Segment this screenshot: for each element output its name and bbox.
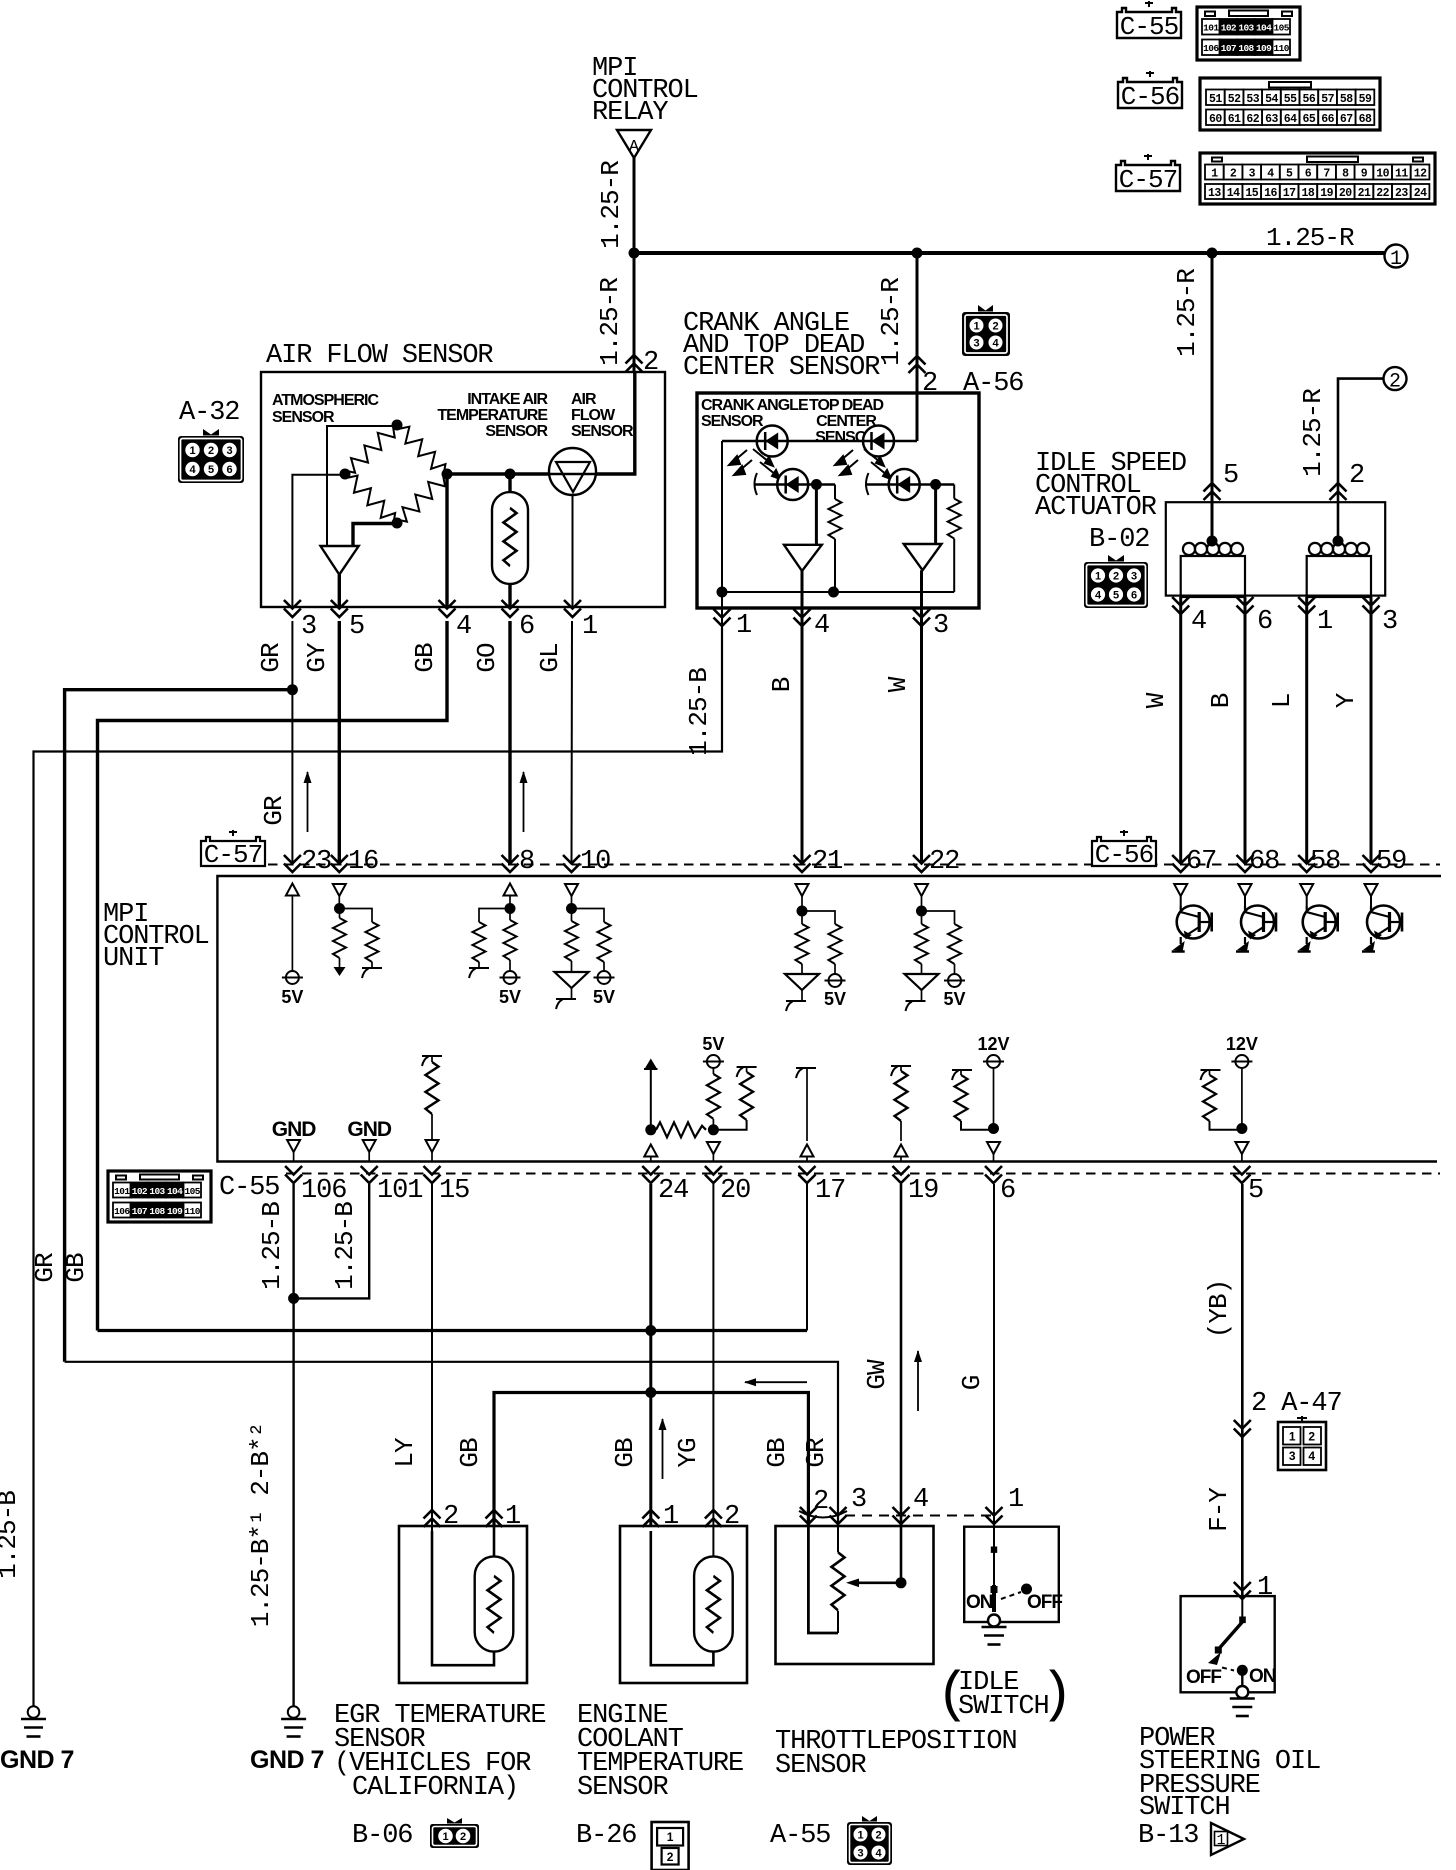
svg-text:5: 5 bbox=[208, 464, 214, 476]
svg-text:2: 2 bbox=[1349, 461, 1364, 491]
light arrows tdc bbox=[835, 449, 891, 479]
svg-text:4: 4 bbox=[1308, 1449, 1315, 1463]
connector C-57 mini label bbox=[201, 830, 265, 870]
idle speed control actuator box bbox=[1166, 502, 1385, 595]
svg-text:64: 64 bbox=[1284, 113, 1297, 126]
pin 21 chevron bbox=[794, 855, 811, 872]
pin 1 exit chevron bbox=[564, 600, 581, 617]
light arrows crank bbox=[729, 449, 780, 479]
air flow sensor box bbox=[261, 372, 665, 607]
svg-text:19: 19 bbox=[908, 1176, 938, 1206]
svg-text:2: 2 bbox=[460, 1831, 466, 1843]
svg-text:SWITCH: SWITCH bbox=[958, 1692, 1049, 1722]
svg-text:C-56: C-56 bbox=[1121, 82, 1179, 112]
svg-text:5V: 5V bbox=[702, 1034, 724, 1054]
connector A-47 icon bbox=[1278, 1416, 1326, 1470]
svg-text:ON: ON bbox=[1249, 1666, 1276, 1687]
svg-text:C-56: C-56 bbox=[1095, 840, 1153, 870]
coolant sensor capsule bbox=[694, 1556, 733, 1651]
wire pin 1 exit bbox=[721, 592, 723, 628]
node right bbox=[442, 469, 453, 480]
svg-text:5V: 5V bbox=[281, 987, 303, 1007]
wire actuator pin 3 to C-56 pin 59 bbox=[1370, 597, 1373, 864]
svg-text:3: 3 bbox=[1382, 607, 1397, 637]
svg-text:9: 9 bbox=[1361, 168, 1368, 181]
wire node to amp crank bbox=[815, 485, 818, 545]
svg-text:FLOW: FLOW bbox=[571, 407, 616, 424]
amplifier atmospheric sensor bbox=[321, 546, 359, 575]
svg-text:101: 101 bbox=[1203, 23, 1219, 34]
wire amp output pin 3 to MPI pin 22 bbox=[920, 570, 923, 864]
svg-text:1.25-R: 1.25-R bbox=[1266, 223, 1354, 253]
GR net horizontal (to throttle pin 3) bbox=[65, 1362, 838, 1526]
svg-text:CENTER: CENTER bbox=[816, 413, 877, 430]
throttle position sensor box bbox=[776, 1526, 934, 1664]
pin 4 chevron bbox=[1172, 597, 1189, 614]
pin 17 chevron bbox=[799, 1166, 816, 1183]
svg-text:1: 1 bbox=[189, 445, 195, 457]
svg-text:(YB): (YB) bbox=[1204, 1280, 1234, 1338]
svg-text:2: 2 bbox=[1113, 571, 1119, 583]
svg-text:53: 53 bbox=[1246, 93, 1259, 106]
svg-text:17: 17 bbox=[1283, 187, 1296, 200]
connector C-56 pin grid (top right) bbox=[1200, 78, 1380, 130]
svg-text:W: W bbox=[883, 676, 913, 692]
connector C-55 pin grid (at C-55 row) bbox=[108, 1171, 211, 1222]
pin 3 exit chevron bbox=[284, 600, 301, 617]
svg-text:2: 2 bbox=[1230, 168, 1237, 181]
svg-text:2: 2 bbox=[1308, 1430, 1315, 1444]
throttle pin 2 chevron bbox=[800, 1507, 817, 1524]
svg-text:63: 63 bbox=[1265, 113, 1278, 126]
svg-text:110: 110 bbox=[185, 1206, 201, 1217]
svg-text:1: 1 bbox=[1008, 1485, 1023, 1515]
power steering oil pressure switch box bbox=[1181, 1596, 1275, 1692]
svg-text:W: W bbox=[1141, 692, 1171, 708]
svg-text:GND: GND bbox=[272, 1118, 317, 1141]
bridge resistor top-right bbox=[392, 420, 453, 480]
svg-text:GND 7: GND 7 bbox=[250, 1746, 324, 1774]
svg-text:6: 6 bbox=[1257, 607, 1272, 637]
pin 4 chevron bbox=[794, 609, 811, 626]
bridge resistor top-left bbox=[340, 420, 402, 480]
wire PT to node tdc bbox=[920, 483, 955, 485]
svg-text:A-55: A-55 bbox=[770, 1821, 830, 1851]
pin 24 / pin 20 internal network bbox=[645, 1059, 657, 1069]
relay connector triangle A bbox=[617, 130, 651, 158]
pin 16 internal resistors bbox=[333, 884, 346, 896]
connector C-55 label box (top right) bbox=[1117, 1, 1181, 42]
svg-text:LY: LY bbox=[390, 1437, 420, 1468]
connector A-55 icon bbox=[847, 1816, 892, 1865]
svg-text:105: 105 bbox=[1274, 23, 1290, 34]
idle switch OFF contact bbox=[1021, 1584, 1032, 1595]
svg-text:102: 102 bbox=[1221, 23, 1237, 34]
svg-text:60: 60 bbox=[1209, 113, 1222, 126]
throttle potentiometer bbox=[837, 1526, 839, 1552]
svg-text:GB: GB bbox=[610, 1438, 640, 1468]
transistor pin 68 bbox=[1239, 884, 1252, 896]
pin 3 chevron bbox=[913, 609, 930, 626]
node bottom bbox=[392, 518, 403, 529]
svg-text:55: 55 bbox=[1284, 93, 1297, 106]
svg-text:109: 109 bbox=[1256, 43, 1272, 54]
svg-text:GO: GO bbox=[472, 643, 502, 673]
pin 21 internal bbox=[796, 884, 809, 896]
resistor inside coolant capsule bbox=[707, 1576, 720, 1633]
LED crank angle bbox=[757, 426, 788, 457]
svg-text:ATMOSPHERIC: ATMOSPHERIC bbox=[272, 392, 379, 409]
svg-text:SENSOR: SENSOR bbox=[571, 423, 634, 440]
amplifier crank bbox=[784, 545, 822, 571]
svg-text:6: 6 bbox=[1305, 168, 1312, 181]
svg-text:17: 17 bbox=[815, 1176, 845, 1206]
ground GND7 left bbox=[21, 1706, 46, 1736]
pin 5 exit chevron bbox=[331, 600, 348, 617]
connector A-32 icon bbox=[178, 429, 244, 483]
svg-text:10: 10 bbox=[1376, 168, 1389, 181]
throttle pin 4 chevron bbox=[893, 1507, 910, 1524]
wire GB down and left to rail bbox=[98, 621, 448, 1331]
svg-text:C-55: C-55 bbox=[1120, 12, 1178, 42]
svg-text:105: 105 bbox=[185, 1186, 201, 1197]
svg-text:61: 61 bbox=[1228, 113, 1241, 126]
svg-text:24: 24 bbox=[658, 1176, 688, 1206]
ground GND7 right bbox=[281, 1706, 306, 1736]
svg-text:GR: GR bbox=[256, 643, 286, 673]
node pill tap bbox=[505, 469, 516, 480]
pin 59 chevron bbox=[1363, 855, 1380, 872]
svg-text:102: 102 bbox=[132, 1186, 148, 1197]
pin 2 chevron actuator bbox=[1330, 483, 1347, 500]
intake air temp sensor capsule bbox=[492, 492, 528, 584]
pin 22 chevron bbox=[913, 855, 930, 872]
svg-text:23: 23 bbox=[301, 847, 331, 877]
svg-text:CALIFORNIA): CALIFORNIA) bbox=[352, 1773, 518, 1803]
svg-text:2: 2 bbox=[992, 321, 998, 333]
svg-text:GW: GW bbox=[862, 1359, 892, 1390]
svg-text:7: 7 bbox=[1323, 168, 1330, 181]
svg-text:GB: GB bbox=[762, 1438, 792, 1468]
coolant inner loop wire bbox=[651, 1531, 714, 1665]
svg-text:GR: GR bbox=[801, 1438, 831, 1468]
direction arrow up (GW) bbox=[914, 1350, 922, 1411]
svg-text:8: 8 bbox=[519, 847, 534, 877]
svg-text:5: 5 bbox=[1286, 168, 1293, 181]
pin 17 internal bbox=[796, 1068, 816, 1078]
svg-text:4: 4 bbox=[1095, 590, 1102, 602]
connector B-13 icon bbox=[1211, 1823, 1244, 1855]
svg-text:2: 2 bbox=[875, 1830, 881, 1842]
svg-text:A: A bbox=[629, 138, 640, 157]
air flow sensor circle bbox=[549, 448, 596, 495]
node GR branch bbox=[287, 684, 298, 695]
wire pin 24 to coolant sensor pin 1 bbox=[649, 1184, 652, 1526]
bridge resistor bottom-left bbox=[340, 469, 402, 529]
svg-text:103: 103 bbox=[1238, 23, 1254, 34]
pin 10 internal bbox=[565, 884, 578, 896]
svg-text:CENTER SENSOR: CENTER SENSOR bbox=[683, 353, 880, 383]
svg-text:23: 23 bbox=[1395, 187, 1408, 200]
node GB branch/pin24 junction bbox=[645, 1387, 656, 1398]
resistor tdc bbox=[953, 485, 955, 499]
svg-text:3: 3 bbox=[301, 612, 316, 642]
EGR temperature sensor box bbox=[399, 1526, 527, 1683]
pin 1 chevron bbox=[1298, 597, 1315, 614]
wire 1.25-B to left edge and GND7 bbox=[34, 628, 723, 1706]
svg-text:106: 106 bbox=[301, 1176, 346, 1206]
svg-text:CRANK ANGLE: CRANK ANGLE bbox=[701, 397, 809, 414]
svg-text:Y: Y bbox=[1331, 692, 1361, 708]
bottom rail bbox=[722, 591, 954, 593]
svg-text:6: 6 bbox=[1131, 590, 1137, 602]
svg-text:59: 59 bbox=[1376, 847, 1406, 877]
connector crossing A-56 chevron bbox=[909, 356, 926, 373]
svg-text:1: 1 bbox=[1095, 571, 1101, 583]
svg-text:104: 104 bbox=[167, 1186, 183, 1197]
wire flow sensor to pin 2 riser bbox=[596, 372, 635, 474]
throttle wiper wire bbox=[900, 1526, 903, 1583]
pin 16 chevron bbox=[331, 855, 348, 872]
svg-text:101: 101 bbox=[377, 1176, 422, 1206]
svg-text:21: 21 bbox=[1358, 187, 1371, 200]
svg-text:1: 1 bbox=[1257, 1573, 1272, 1603]
left coil bbox=[1183, 543, 1243, 555]
svg-text:5V: 5V bbox=[943, 989, 965, 1009]
svg-text:57: 57 bbox=[1321, 93, 1334, 106]
resistor crank bbox=[834, 485, 836, 500]
svg-text:GR: GR bbox=[259, 796, 289, 826]
pin 19 internal resistor bbox=[891, 1066, 911, 1076]
wire pin 20 to coolant sensor pin 2 bbox=[712, 1184, 714, 1556]
svg-text:5V: 5V bbox=[824, 989, 846, 1009]
svg-text:20: 20 bbox=[720, 1176, 750, 1206]
wire bus to idle speed actuator pin 5 bbox=[1211, 253, 1214, 538]
svg-text:B-26: B-26 bbox=[576, 1821, 636, 1851]
svg-text:54: 54 bbox=[1265, 93, 1278, 106]
svg-text:1.25-R: 1.25-R bbox=[595, 278, 625, 366]
svg-text:B: B bbox=[767, 677, 797, 692]
power steering switch blade bbox=[1241, 1596, 1243, 1620]
svg-text:5: 5 bbox=[349, 612, 364, 642]
pin 23 chevron bbox=[284, 855, 301, 872]
direction arrow left bbox=[744, 1378, 807, 1386]
svg-text:5: 5 bbox=[1248, 1176, 1263, 1206]
connector C-56 mini label bbox=[1092, 830, 1156, 870]
wire GL down to MPI pin 10 bbox=[571, 621, 574, 864]
svg-text:24: 24 bbox=[1414, 187, 1427, 200]
node left bbox=[340, 469, 351, 480]
transistor pin 67 bbox=[1174, 884, 1187, 896]
svg-text:22: 22 bbox=[1376, 187, 1389, 200]
wire flow sensor bottom to pin 1 bbox=[572, 495, 574, 607]
svg-text:ON: ON bbox=[966, 1592, 993, 1613]
connector C-55 pin grid (top right) bbox=[1197, 7, 1300, 60]
connector C-57 dashed line bbox=[268, 864, 1440, 866]
svg-text:GB: GB bbox=[455, 1438, 485, 1468]
svg-text:3: 3 bbox=[1289, 1449, 1296, 1463]
svg-text:68: 68 bbox=[1359, 113, 1372, 126]
svg-text:51: 51 bbox=[1209, 93, 1222, 106]
phototransistor crank bbox=[777, 469, 808, 500]
svg-text:YG: YG bbox=[673, 1438, 703, 1467]
svg-text:TEMPERATURE: TEMPERATURE bbox=[437, 407, 548, 424]
wire actuator pin 6 to C-56 pin 68 bbox=[1244, 597, 1247, 864]
wire LED row bbox=[722, 440, 787, 442]
wire amp output pin 5 bbox=[338, 575, 341, 607]
svg-text:6: 6 bbox=[519, 612, 534, 642]
svg-text:1: 1 bbox=[1216, 1832, 1225, 1849]
main 1.25-R bus wire bbox=[634, 251, 1385, 255]
wire pin 5 to power steering switch bbox=[1241, 1184, 1244, 1596]
svg-text:B-13: B-13 bbox=[1138, 1821, 1198, 1851]
pin 20 chevron bbox=[705, 1166, 722, 1183]
svg-text:RELAY: RELAY bbox=[592, 98, 668, 128]
svg-text:GR: GR bbox=[30, 1253, 60, 1283]
power steering ground bbox=[1230, 1686, 1255, 1716]
throttle pin 2 inner wire bbox=[808, 1526, 838, 1633]
svg-text:GB: GB bbox=[410, 643, 440, 673]
svg-text:SWITCH: SWITCH bbox=[1139, 1793, 1230, 1823]
svg-text:8: 8 bbox=[1342, 168, 1349, 181]
resistor inside capsule bbox=[504, 508, 517, 566]
svg-text:B: B bbox=[1206, 693, 1236, 708]
bridge resistor bottom-right bbox=[392, 469, 453, 529]
pin 58 chevron bbox=[1298, 855, 1315, 872]
node: relay junction bbox=[629, 248, 640, 259]
svg-text:3: 3 bbox=[851, 1485, 866, 1515]
svg-text:12V: 12V bbox=[977, 1034, 1009, 1054]
phototransistor tdc bbox=[889, 469, 920, 500]
svg-text:58: 58 bbox=[1310, 847, 1340, 877]
svg-text:G: G bbox=[957, 1376, 987, 1391]
pin 6 chevron bbox=[985, 1166, 1002, 1183]
pin 8 internal 5V pull-up bbox=[504, 884, 517, 896]
direction arrow up (GB) bbox=[659, 1418, 667, 1479]
svg-text:2: 2 bbox=[208, 445, 214, 457]
svg-text:2: 2 bbox=[813, 1487, 828, 1517]
svg-text:1.25-R: 1.25-R bbox=[1172, 269, 1202, 357]
pin 23 internal 5V bbox=[286, 884, 299, 896]
svg-text:SENSOR: SENSOR bbox=[775, 1751, 867, 1781]
svg-text:110: 110 bbox=[1274, 43, 1290, 54]
svg-text:11: 11 bbox=[1395, 168, 1408, 181]
pin 2 entry chevron air flow sensor bbox=[626, 355, 643, 372]
wire actuator pin 1 to C-56 pin 58 bbox=[1305, 597, 1308, 864]
svg-text:62: 62 bbox=[1246, 113, 1259, 126]
svg-text:67: 67 bbox=[1186, 847, 1216, 877]
pin 101 chevron bbox=[361, 1166, 378, 1183]
transistor pin 58 bbox=[1300, 884, 1313, 896]
resistor inside EGR capsule bbox=[488, 1576, 501, 1633]
connector crossing A-47 chevron bbox=[1234, 1420, 1251, 1437]
svg-text:ACTUATOR: ACTUATOR bbox=[1035, 493, 1157, 523]
pin 68 chevron bbox=[1237, 855, 1254, 872]
svg-text:52: 52 bbox=[1228, 93, 1241, 106]
wire left node to pin 3 bbox=[292, 475, 345, 607]
coolant pin 2 chevron bbox=[705, 1510, 722, 1527]
wire top node to amplifier bbox=[327, 426, 397, 546]
svg-text:4: 4 bbox=[189, 464, 196, 476]
svg-text:1.25-B: 1.25-B bbox=[257, 1202, 287, 1290]
svg-text:107: 107 bbox=[1221, 43, 1237, 54]
off-page connector circled 1 bbox=[1385, 245, 1408, 268]
svg-text:4: 4 bbox=[456, 612, 471, 642]
svg-text:6: 6 bbox=[1000, 1176, 1015, 1206]
svg-text:3: 3 bbox=[973, 338, 979, 350]
svg-text:3: 3 bbox=[1249, 168, 1256, 181]
wire right node to temp sensor and flow sensor bbox=[447, 472, 549, 475]
svg-text:14: 14 bbox=[1227, 187, 1240, 200]
svg-text:1: 1 bbox=[1317, 607, 1332, 637]
svg-text:4: 4 bbox=[992, 338, 999, 350]
svg-text:OFF: OFF bbox=[1027, 1592, 1062, 1613]
svg-text:12V: 12V bbox=[1226, 1034, 1258, 1054]
svg-text:2 A-47: 2 A-47 bbox=[1251, 1389, 1342, 1419]
svg-text:4: 4 bbox=[814, 611, 829, 641]
svg-text:5: 5 bbox=[1223, 461, 1238, 491]
svg-text:1.25-B*¹ 2-B*²: 1.25-B*¹ 2-B*² bbox=[246, 1423, 276, 1627]
connector C-57 label box (top right) bbox=[1116, 154, 1180, 195]
svg-text:4: 4 bbox=[875, 1848, 882, 1860]
svg-text:INTAKE AIR: INTAKE AIR bbox=[467, 391, 548, 408]
svg-text:22: 22 bbox=[929, 847, 959, 877]
svg-text:SENSOR: SENSOR bbox=[577, 1773, 669, 1803]
node: crank branch junction bbox=[912, 248, 923, 259]
wire bottom node to amplifier bbox=[353, 524, 397, 547]
pin 4 exit chevron bbox=[439, 600, 456, 617]
wire EGR pin1 into capsule bbox=[493, 1526, 496, 1556]
pin 24 chevron bbox=[642, 1166, 659, 1183]
svg-text:108: 108 bbox=[149, 1206, 165, 1217]
svg-text:1: 1 bbox=[1211, 168, 1218, 181]
svg-text:56: 56 bbox=[1302, 93, 1315, 106]
wire GO down to MPI pin 8 bbox=[508, 621, 511, 864]
svg-text:109: 109 bbox=[167, 1206, 183, 1217]
pin 22 internal bbox=[915, 884, 928, 896]
svg-text:19: 19 bbox=[1320, 187, 1333, 200]
crank angle sensor box bbox=[697, 393, 979, 608]
svg-text:C-57: C-57 bbox=[1119, 165, 1177, 195]
connector C-57 pin grid (top right) bbox=[1200, 153, 1435, 204]
svg-text:1.25-R: 1.25-R bbox=[876, 278, 906, 366]
dashed connector line throttle to idle switch bbox=[845, 1515, 994, 1517]
pin 19 chevron bbox=[893, 1166, 910, 1183]
connector C-55 dashed line bbox=[286, 1173, 1440, 1175]
brace between throttle pins 2-3 bbox=[799, 1511, 847, 1518]
svg-text:15: 15 bbox=[439, 1176, 469, 1206]
svg-text:SENSOR: SENSOR bbox=[272, 409, 335, 426]
right coil bbox=[1309, 543, 1369, 555]
wire bus to crank angle sensor (through A-56) bbox=[916, 253, 919, 441]
svg-text:66: 66 bbox=[1321, 113, 1334, 126]
wire circled 2 to actuator pin 2 bbox=[1338, 379, 1384, 538]
direction arrow up GR bbox=[304, 771, 312, 832]
EGR pin 1 chevron bbox=[486, 1510, 503, 1527]
pin 6 chevron bbox=[1237, 597, 1254, 614]
wire PT to node crank bbox=[808, 483, 835, 485]
node: actuator branch junction bbox=[1207, 248, 1218, 259]
EGR sensor capsule bbox=[475, 1556, 514, 1651]
svg-text:1.25-R: 1.25-R bbox=[596, 161, 626, 249]
MPI control unit box bbox=[217, 876, 1441, 1162]
svg-text:101: 101 bbox=[114, 1186, 130, 1197]
pin 67 chevron bbox=[1172, 855, 1189, 872]
svg-text:16: 16 bbox=[348, 847, 378, 877]
node top bbox=[392, 420, 403, 431]
svg-text:4: 4 bbox=[1267, 168, 1274, 181]
wire bus to air flow sensor pin 2 bbox=[633, 253, 636, 372]
